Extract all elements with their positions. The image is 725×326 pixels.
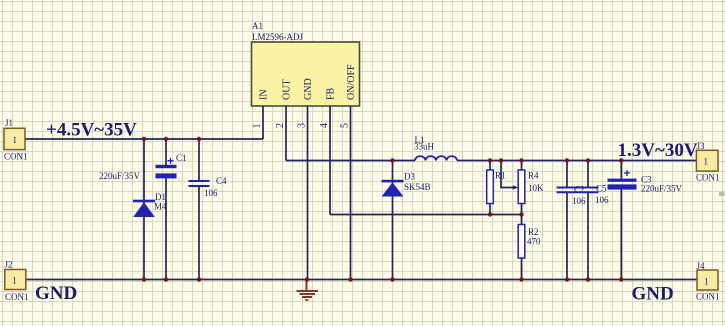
svg-text:R2: R2 [528, 227, 539, 237]
svg-text:C5: C5 [596, 184, 607, 194]
junction output rail / R4 [519, 158, 523, 162]
svg-text:GND: GND [632, 283, 674, 304]
junction gnd rail / R2 [519, 277, 523, 281]
wire input rail (+4.5V net) [25, 138, 263, 140]
svg-text:GND: GND [303, 78, 314, 100]
junction FB / R1 [488, 212, 492, 216]
svg-text:1.3V~30V: 1.3V~30V [618, 140, 698, 161]
svg-text:LM2596-ADJ: LM2596-ADJ [252, 32, 303, 42]
svg-text:J4: J4 [697, 261, 706, 271]
net label GND (left) [35, 283, 77, 304]
connector J2 [5, 260, 29, 303]
svg-text:33uH: 33uH [414, 142, 435, 152]
screen artifact [719, 192, 725, 196]
svg-text:CON1: CON1 [5, 292, 29, 302]
svg-text:1: 1 [704, 157, 709, 167]
pin 2 OUT [275, 106, 286, 161]
wire switch node (pin2 to L1) [286, 160, 415, 162]
junction gnd rail / pin5 [348, 277, 352, 281]
junction gnd rail / D3 [390, 277, 394, 281]
connector J3 [696, 141, 720, 183]
junction switch node / D3 [390, 158, 394, 162]
wire output rail (L1 to J3) [457, 160, 696, 162]
svg-text:CON1: CON1 [696, 173, 720, 183]
svg-text:A1: A1 [252, 21, 263, 31]
net label GND (right) [632, 283, 674, 304]
resistor R2 470 [518, 215, 541, 280]
connector J1 [4, 118, 28, 162]
junction output rail / C3 [619, 158, 623, 162]
junction gnd rail / C5 [586, 277, 590, 281]
diode D1 M4 [133, 192, 167, 217]
svg-text:M4: M4 [154, 202, 167, 212]
svg-text:220uF/35V: 220uF/35V [641, 184, 683, 194]
net label +4.5V~35V [46, 120, 137, 141]
svg-text:470: 470 [527, 237, 541, 247]
junction input rail / C1 [164, 137, 168, 141]
junction output rail / C2 [565, 158, 569, 162]
junction gnd rail / C3 [619, 277, 623, 281]
pin 3 GND [297, 106, 308, 280]
svg-text:J2: J2 [5, 260, 13, 270]
ground symbol [297, 280, 319, 301]
junction gnd rail / D1 [142, 277, 146, 281]
junction output rail / C5 [586, 158, 590, 162]
svg-text:CON1: CON1 [696, 292, 720, 302]
svg-text:10K: 10K [528, 183, 544, 193]
junction output rail / R1 [488, 158, 492, 162]
wire ground rail [26, 279, 697, 281]
inductor L1 33uH [414, 135, 457, 161]
svg-text:2: 2 [275, 123, 286, 128]
svg-text:106: 106 [572, 196, 586, 206]
svg-text:CON1: CON1 [4, 152, 28, 162]
svg-text:J3: J3 [697, 141, 706, 151]
capacitor C5 106 [578, 161, 610, 280]
net label 1.3V~30V [618, 140, 698, 161]
svg-text:D1: D1 [155, 192, 166, 202]
junction gnd rail / C2 [565, 277, 569, 281]
pin 1 IN [252, 106, 263, 139]
svg-text:1: 1 [13, 135, 18, 145]
junction gnd rail / C4 [197, 277, 201, 281]
capacitor C3 220uF/35V [608, 161, 683, 280]
IC A1 LM2596-ADJ [252, 21, 360, 106]
svg-text:+4.5V~35V: +4.5V~35V [46, 120, 137, 141]
svg-text:1: 1 [252, 124, 263, 129]
wire D3 branch [392, 161, 394, 280]
svg-text:FB: FB [325, 87, 336, 100]
svg-text:IN: IN [258, 89, 269, 100]
wire R4 wiper [501, 161, 518, 190]
capacitor C4 106 [189, 139, 228, 280]
capacitor C2 106 [557, 161, 587, 280]
svg-text:OUT: OUT [281, 79, 292, 100]
wire FB net (pin4 to R4/R2 junction) [330, 214, 522, 216]
svg-text:5: 5 [340, 123, 351, 128]
value label 220uF/35V (C1) [99, 171, 141, 181]
junction gnd rail / C1 [164, 277, 168, 281]
svg-text:3: 3 [297, 123, 308, 128]
connector J4 [696, 261, 720, 302]
capacitor C1 220uF/35V [156, 139, 187, 280]
resistor (pot) R4 10K [518, 161, 544, 215]
svg-text:220uF/35V: 220uF/35V [99, 171, 141, 181]
junction output rail / wiper [499, 158, 503, 162]
svg-text:C4: C4 [216, 176, 227, 186]
svg-text:1: 1 [704, 277, 709, 287]
svg-text:ON/OFF: ON/OFF [346, 64, 357, 100]
svg-text:D3: D3 [404, 172, 415, 182]
junction input rail / C4 [197, 137, 201, 141]
diode D3 SK54B [382, 172, 431, 197]
junction input rail / D1 [142, 137, 146, 141]
svg-text:4: 4 [319, 123, 330, 128]
svg-text:106: 106 [595, 195, 609, 205]
svg-text:106: 106 [204, 188, 218, 198]
pin 4 FB [319, 106, 330, 215]
svg-text:R4: R4 [528, 171, 539, 181]
svg-text:1: 1 [12, 276, 17, 286]
junction gnd rail / pin3 ground [305, 277, 309, 281]
svg-text:C1: C1 [176, 153, 187, 163]
svg-text:SK54B: SK54B [404, 182, 431, 192]
svg-text:GND: GND [35, 283, 77, 304]
junction FB / R4 R2 [519, 212, 523, 216]
wire D1 branch [143, 139, 145, 280]
pin 5 ON/OFF [340, 106, 351, 280]
resistor R1 [487, 161, 506, 215]
svg-text:J1: J1 [5, 118, 13, 128]
